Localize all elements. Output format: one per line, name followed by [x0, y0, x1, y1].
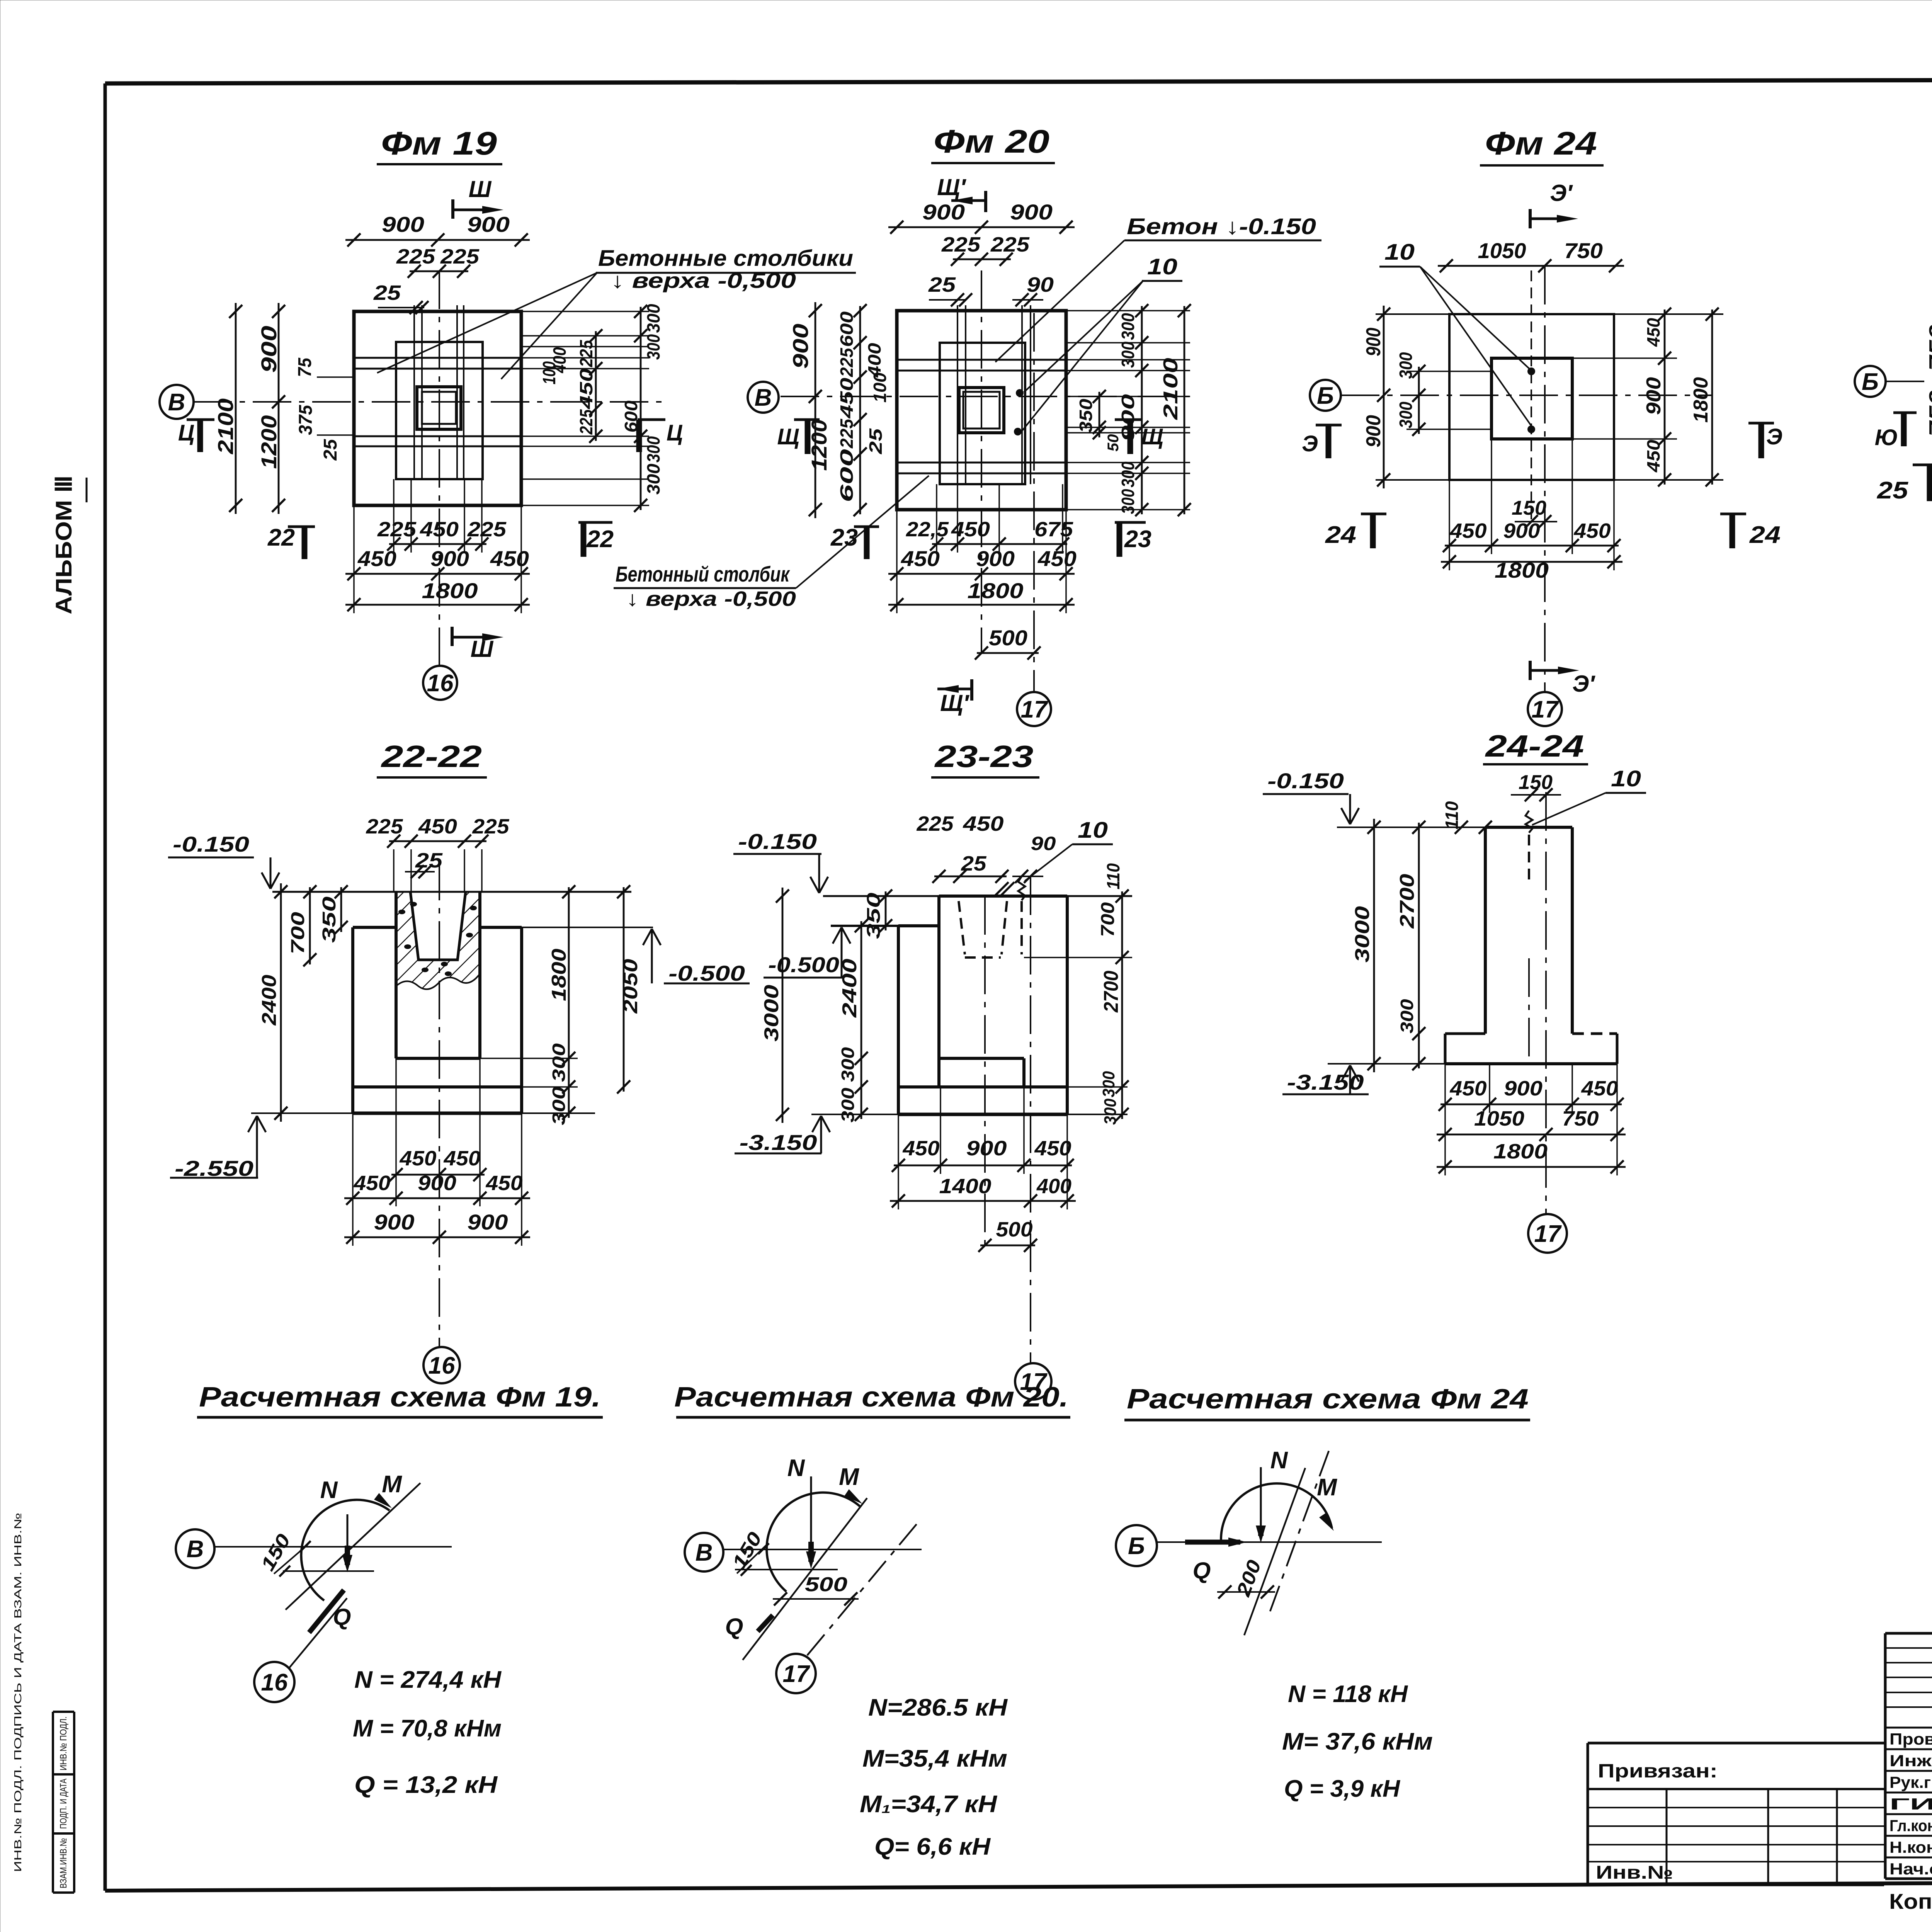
svg-text:22: 22 [267, 524, 295, 551]
FM20 bottom dim 450 900 450 [888, 573, 1075, 575]
svg-text:Расчетная схема Фм 20.: Расчетная схема Фм 20. [674, 1382, 1068, 1413]
FM19 section mark 22 left [288, 526, 315, 528]
svg-text:2400: 2400 [258, 975, 281, 1026]
23-23 center line [984, 896, 986, 1252]
sheet frame bottom border [105, 1880, 1932, 1891]
24-24 left dim 2700 300 [1418, 823, 1420, 1068]
FM24 column square [1492, 358, 1572, 439]
svg-text:1200: 1200 [257, 415, 281, 469]
FM20 section mark Shch-prime bottom [937, 688, 973, 690]
svg-text:17: 17 [1532, 696, 1559, 723]
svg-text:ИНВ.№ ПОДЛ. ПОДПИСЬ И ДАТА: ИНВ.№ ПОДЛ. ПОДПИСЬ И ДАТА ВЗАМ. ИНВ.№ [12, 1513, 24, 1872]
scheme FM19 force Q [309, 1590, 344, 1633]
svg-text:900: 900 [1362, 328, 1385, 356]
svg-text:Ш: Ш [471, 636, 494, 662]
svg-text:450: 450 [1643, 318, 1663, 347]
scheme FM19 axis circle 16 [254, 1662, 294, 1702]
svg-text:225: 225 [440, 245, 480, 268]
FM19 section mark Ts right [638, 418, 665, 421]
FM19 right dim column inner [595, 331, 597, 441]
FM24 bottom dim 1800 [1441, 561, 1622, 563]
svg-text:↓ верха -0,500: ↓ верха -0,500 [626, 587, 796, 611]
svg-text:23-23: 23-23 [934, 739, 1033, 774]
sheet frame left border [104, 83, 107, 1891]
scheme FM20 second diagonal [807, 1523, 918, 1655]
svg-text:2700: 2700 [1396, 874, 1418, 929]
FM20 bottom dim 1800 [888, 604, 1075, 606]
FM19 bottom dim 1800 [345, 604, 530, 606]
FM24 anchor dots [1527, 367, 1535, 375]
svg-text:700: 700 [1098, 902, 1118, 937]
svg-text:450: 450 [418, 815, 457, 838]
scheme FM19 offset line [283, 1570, 374, 1572]
svg-text:375: 375 [296, 405, 316, 435]
svg-text:Щ′: Щ′ [937, 174, 966, 200]
scheme FM24 horizontal axis [1158, 1541, 1382, 1543]
svg-text:Щ: Щ [1141, 424, 1163, 449]
svg-text:350: 350 [1076, 399, 1096, 433]
svg-text:Расчетная схема Фм 19.: Расчетная схема Фм 19. [199, 1382, 601, 1413]
svg-text:-0.150: -0.150 [1267, 769, 1344, 793]
svg-text:M= 37,6 кНм: M= 37,6 кНм [1282, 1728, 1433, 1755]
FM19 right extension lines [521, 311, 649, 312]
22-22 hatch region concrete [396, 892, 480, 989]
scheme FM19 moment arc M [301, 1500, 389, 1600]
svg-text:450: 450 [485, 1172, 522, 1195]
svg-text:225: 225 [837, 347, 857, 377]
svg-text:225: 225 [837, 418, 857, 449]
23-23 left dim 2400 300 300 [861, 921, 862, 1119]
FM24 outer rect [1449, 314, 1614, 480]
svg-text:Фм 20: Фм 20 [934, 123, 1049, 160]
svg-text:900: 900 [922, 200, 965, 224]
svg-text:350: 350 [319, 896, 340, 943]
22-22 outer body walls [351, 927, 354, 1113]
FM20 bottom vertical ext lines [896, 510, 898, 613]
scheme FM20 diagonal axis [743, 1498, 867, 1660]
sheet frame top border [105, 79, 1932, 83]
23-23 left step [831, 925, 939, 927]
svg-text:M₁=34,7 кН: M₁=34,7 кН [860, 1791, 997, 1818]
23-23 inner wall left [937, 896, 940, 1087]
svg-text:1050: 1050 [1478, 238, 1526, 263]
svg-text:16: 16 [261, 1669, 288, 1696]
svg-text:225: 225 [576, 409, 596, 435]
FM19 axis circle V [160, 385, 194, 419]
svg-text:300: 300 [838, 1047, 858, 1082]
24-24 bottom ext lines [1444, 1064, 1446, 1175]
FM24 left dim 900 900 [1383, 306, 1385, 488]
scheme FM20 force Q [758, 1615, 773, 1631]
svg-text:ГИП: ГИП [1889, 1795, 1932, 1813]
svg-text:M: M [382, 1471, 402, 1498]
22-22 bottom ext lines [352, 1113, 354, 1246]
svg-text:Щ′: Щ′ [940, 690, 969, 716]
FM19 section mark 22 right [578, 521, 612, 524]
scheme FM20 horizontal axis [723, 1549, 922, 1550]
FM19 section mark Sh bottom [451, 627, 454, 646]
svg-text:225: 225 [576, 340, 596, 367]
svg-text:900: 900 [430, 546, 469, 571]
svg-text:16: 16 [427, 670, 454, 697]
svg-text:450: 450 [1037, 546, 1077, 571]
svg-text:Бетонный столбик: Бетонный столбик [616, 562, 790, 586]
scheme FM24 diagonal dashdot [1270, 1446, 1331, 1611]
FM20 right dim 300 300 900 300 300 [1141, 306, 1143, 514]
FM24 section mark 24 left [1361, 513, 1386, 515]
FM19 section mark Ts left [187, 418, 214, 421]
svg-text:25: 25 [1877, 477, 1909, 504]
svg-text:Инв.№: Инв.№ [1596, 1862, 1673, 1883]
svg-text:Копировал: Логинова: Копировал: Логинова [1889, 1889, 1932, 1913]
svg-text:900: 900 [257, 326, 281, 373]
svg-text:Э′: Э′ [1572, 671, 1595, 697]
FM20 outer rect [897, 311, 1066, 510]
svg-text:450: 450 [1581, 1077, 1618, 1100]
svg-text:Q: Q [1193, 1558, 1211, 1583]
svg-text:225: 225 [366, 815, 403, 838]
svg-text:750: 750 [1925, 390, 1932, 437]
FM20 vertical form lines [957, 305, 958, 484]
FM20 right dim 2100 [1184, 306, 1185, 514]
FM20 beam lines lower [897, 462, 1066, 464]
svg-text:Фм 24: Фм 24 [1485, 125, 1597, 162]
svg-text:Э′: Э′ [1550, 180, 1573, 206]
svg-text:Б: Б [1128, 1533, 1145, 1560]
svg-text:600: 600 [837, 311, 857, 347]
svg-text:В: В [187, 1536, 204, 1563]
FM20 beam lines upper [897, 359, 1066, 361]
FM24 bottom ext lines [1449, 480, 1450, 570]
FM25 section mark Yu left [1893, 412, 1917, 414]
svg-text:10: 10 [1078, 818, 1108, 843]
23-23 socket dashed trapezoid [959, 901, 965, 954]
svg-text:1400: 1400 [939, 1175, 992, 1198]
22-22 slab top line [353, 1085, 522, 1088]
FM19 top dim 900 900 [345, 239, 530, 241]
svg-text:900: 900 [418, 1172, 456, 1195]
svg-text:100: 100 [539, 361, 559, 384]
svg-text:Q = 13,2 кН: Q = 13,2 кН [354, 1772, 498, 1798]
FM20 axis circle 17 [1017, 692, 1051, 726]
FM20 section mark 23 right [1115, 521, 1146, 524]
23-23 step mid [939, 1057, 1024, 1060]
svg-text:N: N [1270, 1447, 1288, 1474]
22-22 wavy soil line [396, 974, 480, 989]
FM19 bottom vertical ext lines [353, 505, 355, 613]
scheme FM19 force N [347, 1514, 349, 1546]
svg-text:N = 274,4 кН: N = 274,4 кН [354, 1667, 502, 1693]
svg-text:300: 300 [1101, 1099, 1120, 1125]
22-22 top dim 225 450 225 [389, 840, 486, 842]
svg-text:600: 600 [837, 449, 857, 502]
svg-text:900: 900 [382, 212, 424, 236]
svg-text:225: 225 [472, 815, 509, 838]
svg-text:25: 25 [373, 281, 401, 304]
FM20 column square [959, 388, 1004, 433]
22-22 inner line 300 level [396, 1057, 480, 1060]
FM20 right extension lines [1066, 310, 1190, 311]
23-23 axis 17 line [1030, 876, 1031, 1363]
23-23 bottom dim 450 900 450 [894, 1165, 1072, 1167]
22-22 dim 350 [340, 887, 342, 932]
FM20 horizontal axis V [781, 396, 1194, 397]
svg-text:Q = 3,9 кН: Q = 3,9 кН [1284, 1776, 1400, 1802]
23-23 top dim 225 450 90 [934, 876, 1007, 878]
FM24 vertical axis 17 [1544, 266, 1546, 692]
svg-text:900: 900 [966, 1137, 1007, 1160]
svg-text:900: 900 [467, 212, 510, 236]
svg-text:300: 300 [643, 334, 663, 360]
svg-text:Ц: Ц [667, 420, 683, 446]
svg-text:300: 300 [838, 1088, 858, 1122]
svg-text:Фм 19: Фм 19 [381, 125, 497, 162]
scheme FM24 force N [1260, 1467, 1262, 1530]
svg-text:N=286.5 кН: N=286.5 кН [868, 1694, 1008, 1721]
svg-text:25: 25 [961, 852, 986, 875]
svg-text:300: 300 [1118, 489, 1138, 514]
FM24 section mark 24 right [1720, 513, 1746, 515]
svg-text:2100: 2100 [1160, 358, 1182, 420]
FM20 section mark 23 left [854, 526, 879, 528]
23-23 left outer wall [897, 926, 900, 1114]
svg-text:500: 500 [989, 626, 1027, 650]
23-23 rebar squiggle [1018, 876, 1025, 900]
svg-text:Гл.констр: Гл.констр [1889, 1816, 1932, 1835]
FM24 top dim 1050 750 [1438, 265, 1624, 267]
svg-text:Провер.: Провер. [1889, 1730, 1932, 1748]
24-24 bottom dim 1800 [1437, 1166, 1626, 1168]
svg-text:300: 300 [1396, 352, 1416, 379]
24-24 bottom dim 450 900 450 [1440, 1104, 1622, 1105]
22-22 step lines at -0.500 [353, 926, 396, 929]
svg-text:-0.500: -0.500 [768, 952, 839, 977]
22-22 right dim 1800 300 300 [568, 887, 570, 1118]
svg-text:M: M [839, 1464, 859, 1490]
FM20 middle rect [940, 343, 1025, 484]
FM20 section mark Shch right [1115, 418, 1143, 421]
svg-text:25: 25 [928, 273, 956, 296]
svg-text:1800: 1800 [1495, 558, 1549, 582]
svg-text:Э: Э [1302, 431, 1318, 456]
FM19 axis circle 16 [423, 666, 457, 700]
FM20 anchor dots [1016, 389, 1024, 397]
FM19 bottom dim 225 450 225 [389, 543, 486, 545]
svg-text:Ш: Ш [469, 176, 492, 202]
svg-text:900: 900 [788, 324, 813, 369]
left margin stamp column cells [52, 1712, 54, 1893]
FM20 bottom dim 225 450 675 [932, 543, 1067, 545]
FM20 center line [981, 270, 982, 653]
svg-text:500: 500 [996, 1218, 1033, 1241]
svg-text:300: 300 [1396, 401, 1416, 428]
FM20 left dim column 600 225 450 225 600 [859, 306, 861, 514]
svg-text:450: 450 [399, 1147, 436, 1170]
svg-text:1050: 1050 [1474, 1107, 1524, 1130]
svg-text:900: 900 [1504, 1077, 1543, 1100]
svg-text:100: 100 [870, 372, 890, 403]
svg-text:24: 24 [1325, 522, 1356, 548]
scheme FM20 dim 500 [773, 1598, 859, 1600]
svg-text:-0.150: -0.150 [738, 829, 817, 854]
svg-text:ИНВ.№ ПОДЛ.: ИНВ.№ ПОДЛ. [58, 1716, 69, 1770]
FM19 dim 225 225 [410, 270, 468, 272]
svg-text:В: В [755, 384, 772, 411]
svg-text:ПОДП. И ДАТА: ПОДП. И ДАТА [58, 1779, 69, 1829]
FM24 column center line [1531, 270, 1532, 526]
24-24 column center dashed [1528, 835, 1530, 885]
svg-text:1800: 1800 [422, 578, 478, 603]
leader lines betonnye stolbiki [377, 273, 597, 373]
24-24 pillar top line [1337, 827, 1485, 828]
svg-text:2050: 2050 [619, 959, 642, 1014]
23-23 top surface line [823, 895, 1132, 897]
svg-text:400: 400 [1036, 1175, 1071, 1198]
svg-text:Н.контр.: Н.контр. [1889, 1838, 1932, 1856]
22-22 bottom dim 900 900 [344, 1236, 530, 1238]
scheme FM19 axis circle V [176, 1529, 214, 1568]
svg-text:16: 16 [429, 1352, 455, 1379]
FM20 left dim 900 1200 [815, 302, 816, 518]
svg-text:Привязан:: Привязан: [1598, 1760, 1718, 1782]
svg-text:225: 225 [990, 233, 1030, 256]
svg-text:300: 300 [1099, 1071, 1118, 1097]
svg-text:-3.150: -3.150 [1287, 1070, 1364, 1094]
22-22 right dim 2050 [623, 887, 625, 1092]
svg-text:450: 450 [1034, 1137, 1071, 1160]
24-24 slab [1445, 1032, 1485, 1035]
23-23 bottom dim 500 [980, 1245, 1035, 1247]
23-23 bottom dim 1400 400 [890, 1200, 1076, 1202]
svg-text:900: 900 [468, 1210, 508, 1234]
svg-text:300: 300 [1118, 313, 1138, 340]
22-22 socket outer walls [395, 892, 398, 1058]
FM24 top edge extension [1376, 313, 1449, 315]
scheme FM20 dim 150 [737, 1544, 767, 1573]
svg-text:900: 900 [1503, 519, 1540, 543]
FM19 section mark Sh top [451, 199, 454, 219]
23-23 right dim 110 700 2700 300 300 [1121, 891, 1123, 1119]
svg-text:Q: Q [725, 1614, 743, 1639]
24-24 pillar walls [1484, 827, 1487, 1034]
FM24 bottom dim 450 900 450 [1445, 545, 1619, 547]
svg-text:2700: 2700 [1100, 971, 1122, 1013]
scheme FM19 dim 150 [274, 1544, 308, 1574]
svg-text:N: N [787, 1455, 805, 1481]
svg-text:450: 450 [1573, 519, 1611, 543]
FM19 vertical form lines [413, 305, 415, 479]
scheme FM24 diagonal solid [1244, 1468, 1305, 1635]
22-22 axis circle 16 [423, 1347, 460, 1383]
svg-text:450: 450 [490, 546, 529, 571]
svg-text:Нач.отд: Нач.отд [1889, 1860, 1932, 1878]
22-22 center axis [439, 862, 440, 1347]
svg-text:17: 17 [783, 1661, 810, 1687]
svg-text:ВЗАМ.ИНВ.№: ВЗАМ.ИНВ.№ [58, 1838, 69, 1888]
FM19 bottom dim 450 900 450 [345, 573, 530, 575]
FM24 section mark E-prime bottom [1529, 669, 1571, 672]
svg-text:Рук.груп: Рук.груп [1889, 1773, 1932, 1791]
svg-text:450: 450 [902, 1137, 939, 1160]
svg-text:350: 350 [864, 893, 884, 939]
FM20 section mark Shch left [794, 418, 820, 421]
FM20 bottom dim 500 [977, 652, 1039, 654]
FM24 axis circle B [1310, 380, 1341, 411]
svg-text:Инжен.: Инжен. [1889, 1752, 1932, 1770]
svg-text:150: 150 [1512, 497, 1546, 519]
scheme FM24 axis circle B [1116, 1525, 1157, 1566]
svg-text:Б: Б [1862, 369, 1879, 395]
svg-text:450: 450 [357, 546, 396, 571]
svg-text:900: 900 [1362, 415, 1385, 447]
svg-text:-3.150: -3.150 [740, 1130, 817, 1155]
svg-text:В: В [168, 389, 185, 416]
svg-text:22-22: 22-22 [380, 739, 482, 774]
svg-text:90: 90 [1031, 833, 1056, 854]
svg-text:225: 225 [916, 812, 954, 835]
FM19 middle rect [396, 342, 483, 479]
svg-text:450: 450 [420, 518, 459, 541]
svg-text:450: 450 [963, 812, 1003, 835]
svg-text:900: 900 [374, 1210, 415, 1234]
FM19 vertical axis 16 [439, 270, 440, 666]
FM19 left dim 900 1200 [278, 303, 280, 514]
svg-text:2400: 2400 [838, 959, 861, 1018]
23-23 slab top line [898, 1085, 1067, 1088]
scheme FM20 axis circle V [685, 1533, 723, 1571]
svg-text:3000: 3000 [760, 985, 783, 1041]
FM20 axis circle V [748, 382, 779, 413]
FM25 section mark 25 left [1913, 464, 1932, 466]
FM24 left dim 300 300 [1418, 367, 1420, 434]
svg-text:N: N [320, 1477, 338, 1503]
svg-text:110: 110 [1103, 863, 1123, 889]
svg-text:24: 24 [1749, 522, 1781, 548]
svg-text:300: 300 [549, 1086, 569, 1125]
svg-text:750: 750 [1562, 1107, 1599, 1130]
svg-text:1800: 1800 [968, 578, 1024, 603]
FM24 right ext lines [1572, 357, 1677, 359]
FM20 right dim 350 50 [1099, 392, 1100, 437]
svg-text:Ю: Ю [1875, 425, 1898, 450]
svg-text:2100: 2100 [213, 398, 238, 454]
svg-text:450: 450 [837, 378, 857, 419]
svg-text:23: 23 [1124, 526, 1151, 553]
FM24 right dim 450 900 450 [1664, 310, 1666, 485]
svg-text:Расчетная схема Фм 24: Расчетная схема Фм 24 [1127, 1384, 1529, 1415]
svg-text:300: 300 [1118, 342, 1138, 368]
svg-text:450: 450 [443, 1147, 480, 1170]
svg-text:225: 225 [467, 518, 507, 541]
23-23 dim 350 [885, 891, 887, 930]
svg-text:90: 90 [1027, 273, 1054, 296]
scheme FM24 moment arc M [1221, 1483, 1332, 1541]
svg-text:300: 300 [549, 1043, 569, 1082]
svg-text:3000: 3000 [1351, 906, 1374, 963]
svg-text:450: 450 [576, 368, 596, 410]
svg-text:300: 300 [643, 464, 663, 495]
FM19 horizontal axis V [193, 401, 668, 403]
svg-text:10: 10 [1147, 254, 1177, 279]
scheme FM19 diagonal axis [286, 1483, 420, 1610]
22-22 bottom dim 450 900 450 [344, 1197, 530, 1199]
svg-text:900: 900 [1643, 377, 1665, 415]
svg-text:-0.500: -0.500 [668, 961, 745, 985]
svg-text:10: 10 [1611, 766, 1641, 791]
svg-text:10: 10 [1384, 240, 1415, 265]
FM25 axis circle B [1855, 366, 1886, 397]
FM20 dim 225 225 [953, 259, 1011, 260]
